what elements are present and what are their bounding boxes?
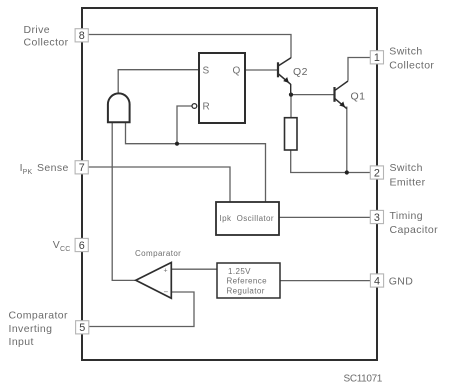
svg-text:Collector: Collector [24,37,69,49]
svg-text:Q1: Q1 [351,91,366,103]
wire oscillator to pin3 [279,216,371,218]
node Q2 emitter junction [289,93,293,97]
svg-text:3: 3 [374,212,380,224]
oscillator block [216,202,279,235]
svg-text:Switch: Switch [389,46,422,58]
pin 2 box [370,166,383,180]
reference regulator block [217,263,280,298]
pin 7 box [75,161,88,175]
svg-text:1.25V: 1.25V [228,267,251,276]
wire comparator output to AND input [112,122,136,280]
latch U1 (S-R) [199,53,245,123]
svg-text:Q: Q [233,66,241,77]
svg-text:7: 7 [79,162,85,174]
AND gate [108,93,130,122]
svg-text:Input: Input [9,336,34,348]
wire reference to pin4 [280,280,371,282]
svg-text:V: V [53,239,60,251]
wire latch Q output to Q2 base [245,69,278,71]
svg-text:R: R [203,102,211,113]
svg-text:+: + [164,268,168,275]
comparator U2 [136,263,172,299]
svg-text:Inverting: Inverting [9,323,53,335]
svg-text:5: 5 [79,322,85,334]
pin 6 box [75,238,88,252]
svg-text:SC11071: SC11071 [344,373,383,384]
node junction R wire [175,142,179,146]
pin 8 box [75,29,88,43]
wire resistor bottom to emitter line [291,150,371,173]
svg-text:Timing: Timing [390,210,424,222]
svg-text:Comparator: Comparator [9,310,69,322]
resistor R1 [285,118,298,150]
IC outline box [82,8,377,360]
node Q1 emitter junction [345,170,349,174]
svg-text:8: 8 [79,30,85,42]
wire node to resistor top [290,95,292,118]
svg-text:Q2: Q2 [293,66,308,78]
transistor Q2 [278,58,291,95]
svg-text:PK: PK [23,169,33,176]
latch R bubble [192,104,197,109]
svg-text:Switch: Switch [390,162,423,174]
pin 5 box [76,321,89,335]
svg-text:CC: CC [60,246,71,253]
svg-text:−: − [164,288,169,297]
pin 3 box [370,210,383,224]
pin 4 box [370,274,383,288]
wire AND output to latch S input [118,70,199,93]
svg-text:Sense: Sense [37,162,69,174]
wire latch R input branch [177,106,192,144]
svg-text:Capacitor: Capacitor [390,224,439,236]
svg-text:Collector: Collector [389,59,434,71]
svg-text:1: 1 [374,52,380,64]
svg-text:2: 2 [374,167,380,179]
svg-text:Regulator: Regulator [227,286,265,295]
wire Q1 emitter down [346,107,348,173]
svg-text:6: 6 [79,240,85,252]
transistor Q1 [335,81,349,109]
wire comparator minus to pin5 [89,292,195,327]
pin 1 box [370,51,383,64]
wire Q1 collector to pin1 [348,58,371,81]
svg-text:Reference: Reference [227,277,268,286]
svg-text:Drive: Drive [24,24,51,36]
wire Q2 emitter node to Q1 base [291,94,334,96]
svg-text:GND: GND [389,276,414,288]
wire pin7 to oscillator [88,167,230,202]
wire pin8 to Q2 collector [88,35,291,59]
svg-text:Emitter: Emitter [390,176,426,188]
wire comparator plus to reference [171,268,217,270]
svg-text:Comparator: Comparator [135,249,181,258]
svg-text:Ipk Oscillator: Ipk Oscillator [220,214,274,223]
svg-text:S: S [203,66,210,77]
svg-text:4: 4 [374,275,380,287]
wire oscillator to AND input and R [126,122,266,202]
